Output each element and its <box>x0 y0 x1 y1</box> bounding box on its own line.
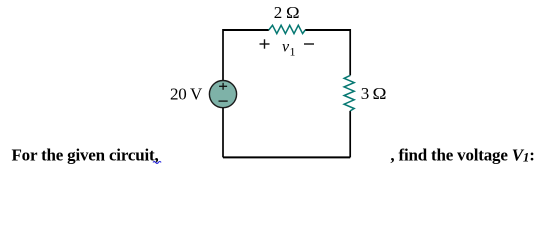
svg-text:3: 3 <box>361 84 370 103</box>
svg-text:2: 2 <box>274 3 283 22</box>
svg-text:, find the voltage V1:: , find the voltage V1: <box>390 146 534 165</box>
svg-text:1: 1 <box>290 45 296 59</box>
svg-text:For the given circuit,: For the given circuit, <box>12 146 159 165</box>
svg-text:Ω: Ω <box>286 3 300 22</box>
svg-text:20 V: 20 V <box>170 85 203 104</box>
svg-text:Ω: Ω <box>373 84 387 103</box>
